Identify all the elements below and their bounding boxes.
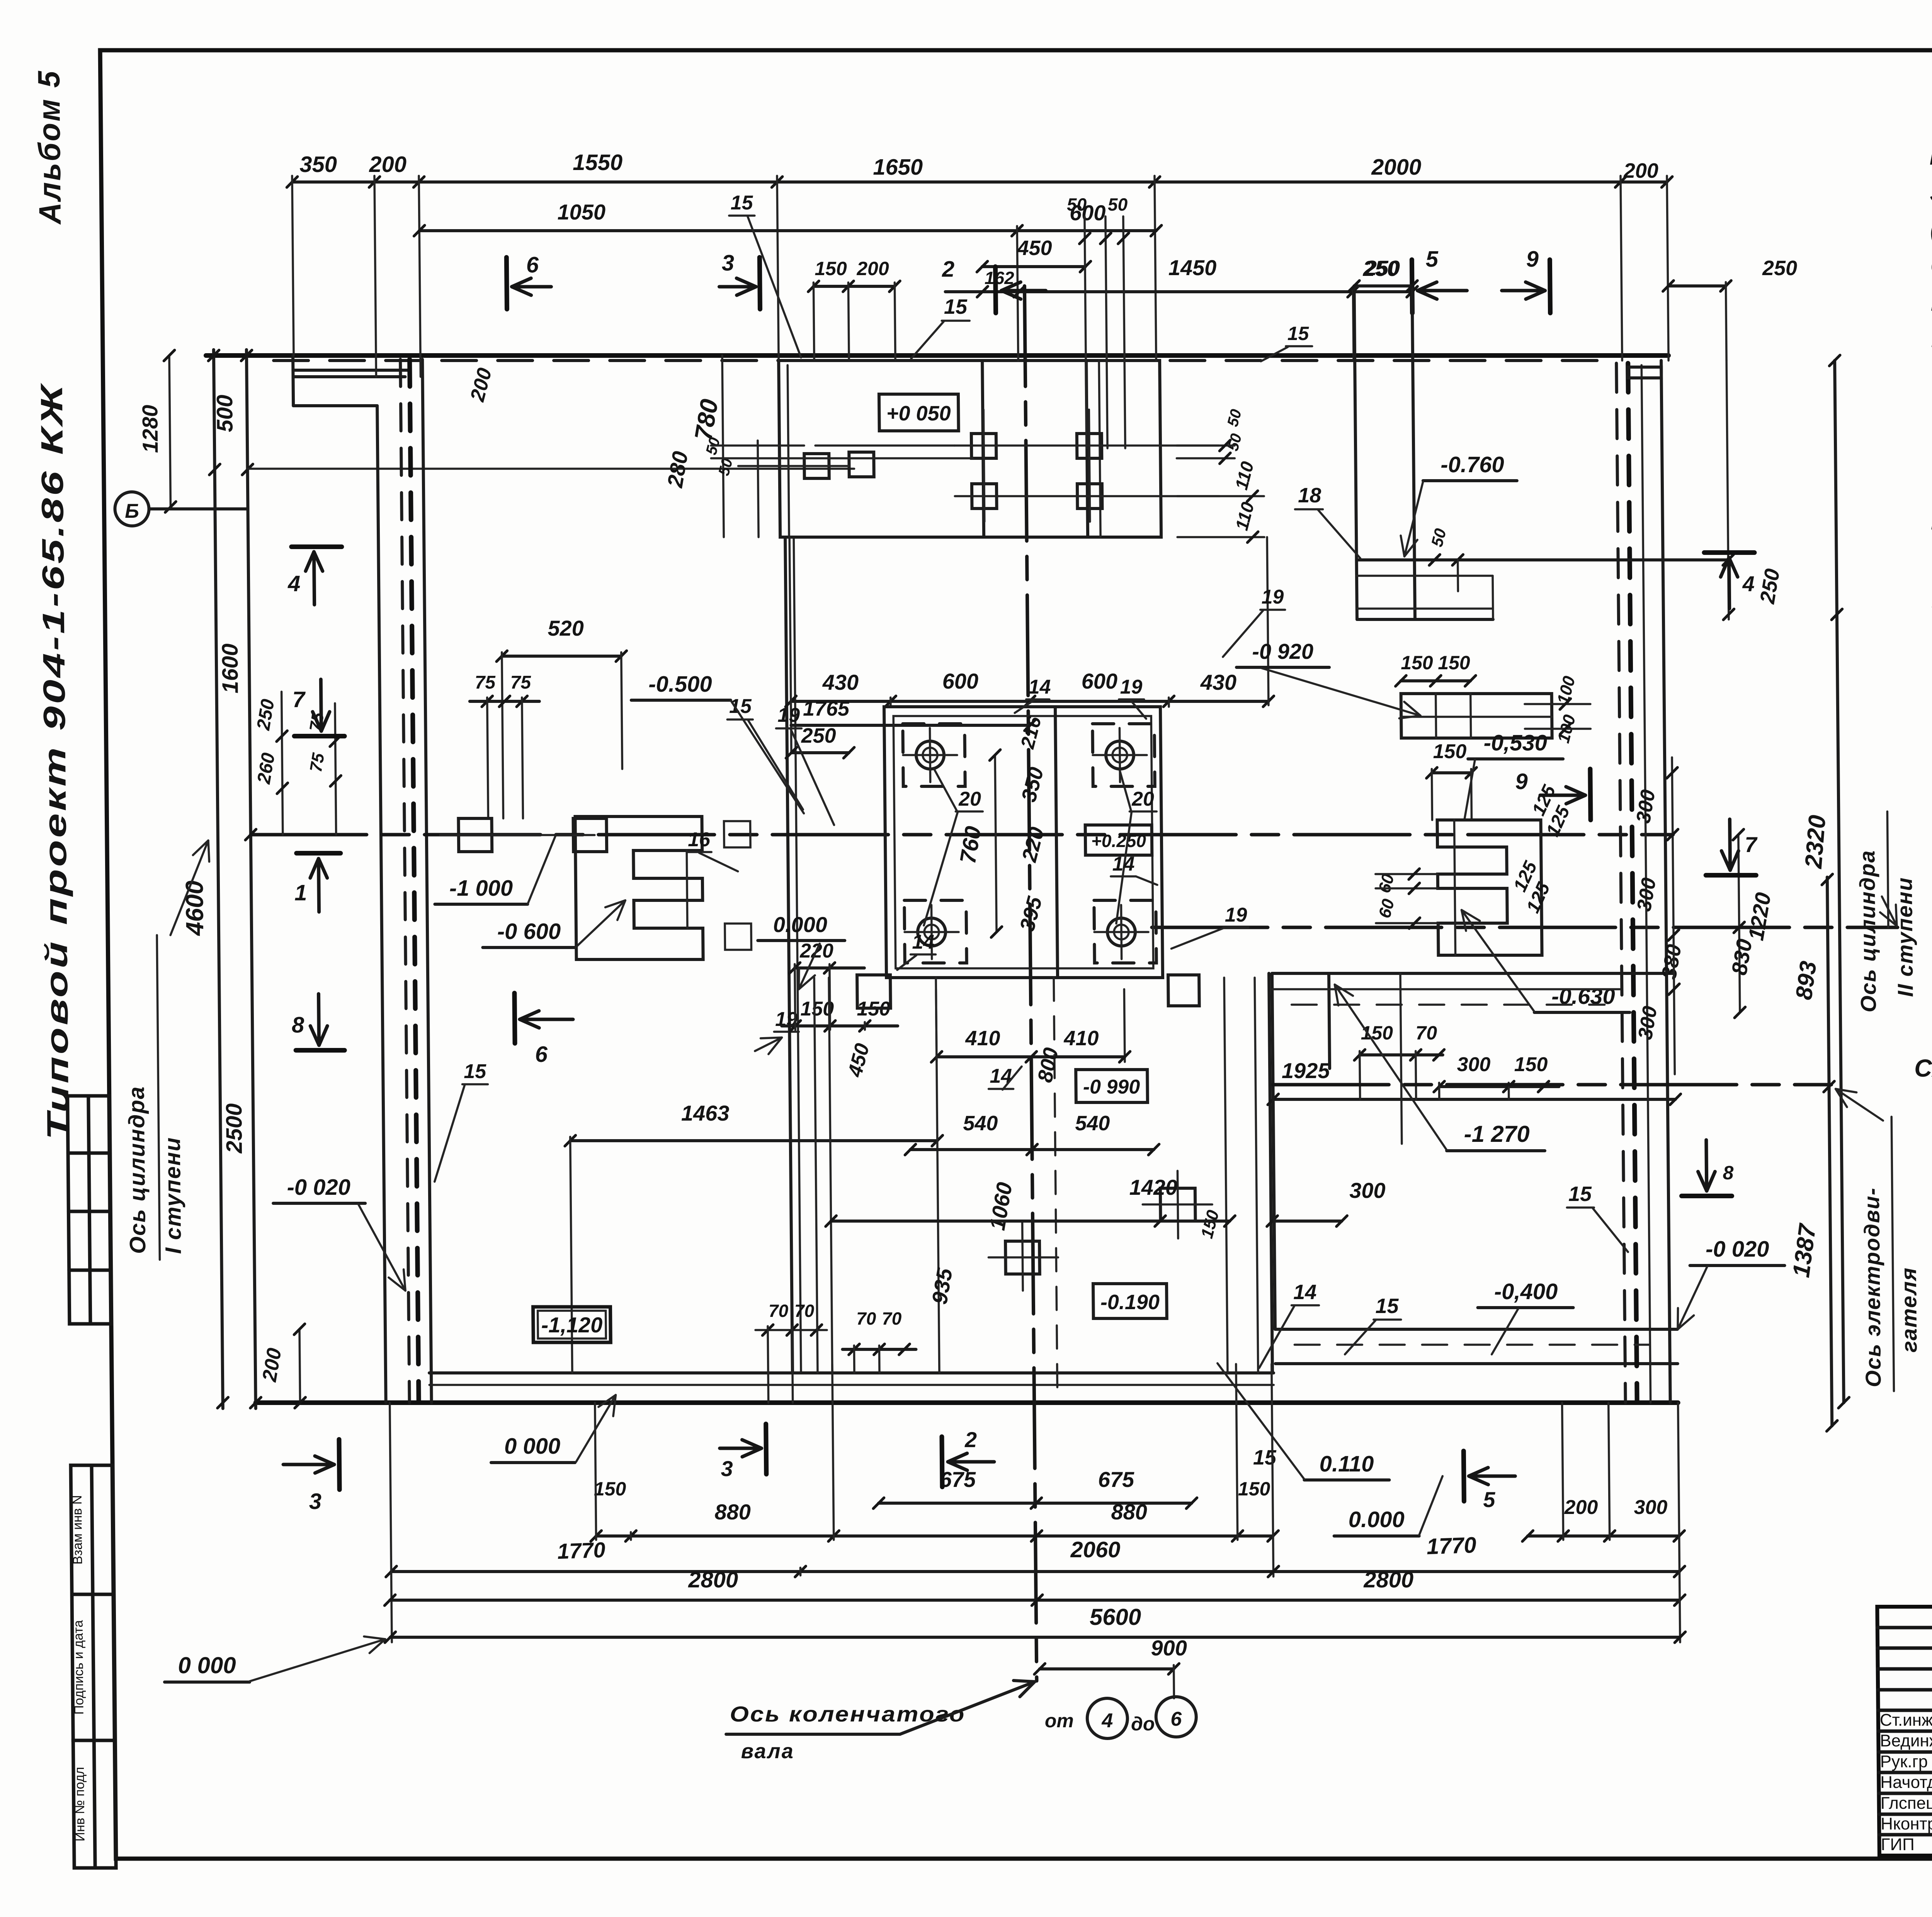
plan: left total dim line 4600 <box>214 350 223 1408</box>
svg-text:7: 7 <box>292 687 306 712</box>
svg-text:1280: 1280 <box>138 405 162 453</box>
left margin small table <box>68 1096 111 1324</box>
svg-text:ЗАДАНИЯ, ВЫДАННОГО ИНСТИТУТОМ: ЗАДАНИЯ, ВЫДАННОГО ИНСТИТУТОМ „ГИПРОСТРО… <box>1930 178 1932 207</box>
svg-text:520: 520 <box>548 616 584 640</box>
svg-text:2800: 2800 <box>1363 1567 1414 1592</box>
svg-text:19: 19 <box>1120 676 1142 698</box>
svg-text:2060: 2060 <box>1070 1537 1121 1562</box>
svg-text:I ступени: I ступени <box>160 1137 186 1254</box>
svg-text:70: 70 <box>882 1308 902 1328</box>
title block <box>1877 1607 1932 1856</box>
top dim row 1 <box>292 180 1667 184</box>
svg-text:КОМПРЕССОР 2Вм10-63/9 РАЗРАБ: КОМПРЕССОР 2Вм10-63/9 РАЗРАБОТАНЫ НА ОСН… <box>1929 142 1932 170</box>
svg-text:4: 4 <box>287 571 301 596</box>
anchor circles <box>916 741 944 769</box>
svg-text:900: 900 <box>1151 1636 1187 1660</box>
svg-text:-0,530: -0,530 <box>1483 730 1547 755</box>
plan: bottom edge <box>256 1400 1678 1405</box>
svg-text:14: 14 <box>1293 1281 1317 1304</box>
right room bottom line <box>1276 1362 1678 1365</box>
dim row 430 600 600 430 <box>791 700 1269 703</box>
svg-text:вала: вала <box>741 1740 794 1763</box>
svg-text:1650: 1650 <box>873 155 923 180</box>
svg-text:50: 50 <box>1067 194 1087 214</box>
svg-text:2: 2 <box>964 1427 977 1452</box>
elevation +0 050 <box>879 394 959 431</box>
svg-text:150: 150 <box>1361 1022 1393 1044</box>
svg-text:Инв № подл: Инв № подл <box>72 1767 88 1842</box>
svg-text:250: 250 <box>1762 257 1798 280</box>
section mark 6 top <box>507 257 507 309</box>
svg-text:3: 3 <box>721 1456 733 1481</box>
svg-text:6: 6 <box>526 252 539 277</box>
plan: left segment dim line 500/1600/2500 <box>247 350 256 1408</box>
top dim row 3 <box>946 290 1412 293</box>
top right block bottom step <box>1357 558 1728 561</box>
svg-text:14: 14 <box>990 1065 1012 1087</box>
svg-text:675: 675 <box>1098 1467 1134 1492</box>
svg-text:3: 3 <box>722 250 735 276</box>
svg-text:15: 15 <box>944 295 968 318</box>
svg-text:-0.760: -0.760 <box>1440 452 1504 477</box>
svg-text:150: 150 <box>1433 740 1466 763</box>
svg-text:ГИП: ГИП <box>1881 1835 1915 1854</box>
node B circle <box>115 492 149 526</box>
svg-text:7: 7 <box>1745 832 1758 857</box>
svg-text:0.110: 0.110 <box>1319 1451 1374 1476</box>
svg-text:8: 8 <box>1723 1162 1733 1184</box>
svg-text:15: 15 <box>1287 323 1309 344</box>
svg-text:450: 450 <box>1017 236 1052 260</box>
svg-text:20: 20 <box>958 788 981 810</box>
svg-text:-0 920: -0 920 <box>1252 639 1313 663</box>
svg-text:600: 600 <box>942 669 978 693</box>
top dim extension verticals <box>292 176 294 356</box>
section mark 6 bottom-left <box>514 993 515 1043</box>
svg-text:200: 200 <box>369 152 406 177</box>
svg-text:+0.250: +0.250 <box>1091 831 1146 851</box>
svg-text:1463: 1463 <box>681 1101 730 1125</box>
svg-text:540: 540 <box>963 1112 998 1135</box>
svg-text:(ЧЕРТЕЖИ 590973 л 1,2) И ЧЕ: (ЧЕРТЕЖИ 590973 л 1,2) И ЧЕРТЕЖЕЙ П.О ПЕ… <box>1930 214 1932 243</box>
svg-text:Ось цилиндра: Ось цилиндра <box>1855 850 1881 1012</box>
svg-text:Альбом 5: Альбом 5 <box>32 70 68 225</box>
svg-text:2: 2 <box>942 257 955 282</box>
svg-text:1765: 1765 <box>803 697 850 720</box>
svg-text:-0.190: -0.190 <box>1100 1291 1160 1314</box>
top dim row 2 <box>419 229 1156 232</box>
svg-text:СХЕМА ПРИЛОЖЕНИЯ НЕУРАВНОВ: СХЕМА ПРИЛОЖЕНИЯ НЕУРАВНОВЕШЕННЫХ СИЛ ИН… <box>1914 1054 1932 1082</box>
svg-text:20: 20 <box>1131 788 1154 810</box>
svg-text:19: 19 <box>1225 904 1247 926</box>
svg-text:14: 14 <box>1028 676 1051 698</box>
upper platform internal verticals <box>982 361 984 537</box>
svg-text:540: 540 <box>1075 1112 1110 1135</box>
section mark 3 lower-left <box>339 1439 340 1490</box>
svg-text:70: 70 <box>794 1301 815 1321</box>
platform needle lines <box>954 444 1219 447</box>
svg-text:75: 75 <box>474 672 496 693</box>
section mark 8 right <box>1682 1194 1732 1198</box>
svg-text:1050: 1050 <box>557 200 605 224</box>
svg-text:150: 150 <box>1238 1478 1270 1500</box>
svg-text:4: 4 <box>1101 1709 1113 1732</box>
svg-text:Ось электродви-: Ось электродви- <box>1859 1187 1886 1387</box>
crank axis vertical centerline <box>1024 286 1037 1681</box>
svg-text:8: 8 <box>292 1012 305 1038</box>
svg-text:2000: 2000 <box>1371 155 1422 180</box>
svg-text:1: 1 <box>294 880 307 905</box>
svg-text:1600: 1600 <box>218 643 243 693</box>
left wall verticals <box>377 406 386 1403</box>
svg-text:430: 430 <box>822 670 859 694</box>
svg-text:2500: 2500 <box>221 1103 247 1153</box>
svg-text:0 000: 0 000 <box>504 1434 561 1459</box>
svg-text:-0 020: -0 020 <box>287 1175 350 1200</box>
right wall top notch <box>1628 367 1661 378</box>
svg-text:от: от <box>1045 1710 1074 1732</box>
svg-text:600: 600 <box>1081 669 1117 693</box>
section mark 8 left <box>296 1048 345 1053</box>
svg-text:14: 14 <box>912 931 934 953</box>
svg-text:430: 430 <box>1200 670 1236 694</box>
section mark 9 top <box>1550 260 1550 313</box>
svg-text:75: 75 <box>306 752 328 774</box>
svg-text:-1 270: -1 270 <box>1464 1121 1530 1147</box>
platform anchor squares <box>971 434 997 458</box>
svg-text:0 000: 0 000 <box>178 1652 236 1678</box>
svg-text:50: 50 <box>1108 194 1128 214</box>
section mark 5 bottom <box>1464 1451 1464 1501</box>
svg-text:-0 600: -0 600 <box>497 919 561 944</box>
svg-text:675: 675 <box>939 1467 976 1492</box>
section mark 4 right <box>1704 550 1754 555</box>
svg-text:4600: 4600 <box>180 881 209 936</box>
svg-text:Ось цилиндра: Ось цилиндра <box>124 1086 151 1254</box>
left H-block <box>575 816 703 959</box>
svg-text:16: 16 <box>688 828 711 851</box>
svg-text:250: 250 <box>1365 257 1400 280</box>
svg-text:300: 300 <box>1634 1496 1667 1519</box>
section mark 4 left <box>291 544 342 549</box>
svg-text:до: до <box>1131 1713 1155 1735</box>
section mark 3 top <box>760 257 760 309</box>
svg-text:70: 70 <box>769 1301 789 1321</box>
svg-text:6: 6 <box>1170 1708 1182 1730</box>
svg-text:15: 15 <box>730 192 753 214</box>
left margin box Подпись и дата <box>72 1594 115 1740</box>
svg-text:2320: 2320 <box>1800 814 1831 870</box>
section mark 1 left <box>296 851 340 856</box>
svg-text:СОРМАШ 288Ф л.1,2 С ИСПОЛ: СОРМАШ 288Ф л.1,2 С ИСПОЛЬЗОВАНИЕМ МАТЕР… <box>1930 252 1932 280</box>
electric motor axis line <box>1273 1083 1831 1087</box>
right side rot dim column <box>1726 361 1729 619</box>
svg-text:19: 19 <box>777 704 800 726</box>
section mark 2 top <box>995 267 996 313</box>
dim 1280 vertical <box>169 356 170 507</box>
svg-text:Начотд: Начотд <box>1880 1773 1932 1792</box>
svg-text:Б: Б <box>125 500 139 522</box>
svg-text:162: 162 <box>985 268 1015 288</box>
svg-text:15: 15 <box>1375 1294 1399 1318</box>
svg-text:-0 990: -0 990 <box>1083 1076 1140 1098</box>
top right wall block 250 wide <box>1354 286 1357 619</box>
central block inner verticals <box>1055 707 1058 978</box>
svg-text:150: 150 <box>1438 652 1470 674</box>
dim 250 far right <box>1668 284 1726 287</box>
svg-text:Типовой проект 904-1-65.86: Типовой проект 904-1-65.86 КЖ <box>34 383 75 1140</box>
svg-text:300: 300 <box>1349 1178 1386 1203</box>
top dim row 450 <box>982 265 1085 268</box>
svg-text:880: 880 <box>1111 1500 1147 1524</box>
svg-text:150: 150 <box>815 258 847 279</box>
section mark 3 bottom <box>766 1424 766 1474</box>
svg-text:-0.500: -0.500 <box>648 672 712 697</box>
svg-text:200: 200 <box>1564 1496 1598 1519</box>
section mark 5 top <box>1412 260 1412 313</box>
svg-text:II ступени: II ступени <box>1892 877 1918 997</box>
svg-text:-1 000: -1 000 <box>449 876 513 901</box>
svg-text:5600: 5600 <box>1089 1604 1141 1630</box>
svg-text:500: 500 <box>212 395 238 432</box>
svg-text:75: 75 <box>510 672 531 693</box>
svg-text:18: 18 <box>1298 484 1321 507</box>
cylinder II axis horizontal centerline <box>1152 926 1898 929</box>
svg-text:4: 4 <box>1742 572 1755 596</box>
svg-text:1770: 1770 <box>1426 1533 1477 1559</box>
svg-text:19: 19 <box>1261 586 1284 608</box>
dashed pockets around circles <box>903 724 965 786</box>
svg-text:1420: 1420 <box>1129 1175 1177 1199</box>
svg-text:6: 6 <box>535 1042 548 1067</box>
needle lines left of platform <box>711 444 804 447</box>
svg-text:Глспец: Глспец <box>1881 1794 1932 1813</box>
svg-text:-0 020: -0 020 <box>1706 1237 1769 1262</box>
left anchor squares <box>458 818 492 852</box>
svg-text:1770: 1770 <box>557 1538 606 1563</box>
svg-text:1550: 1550 <box>573 150 623 175</box>
elevation +0.250 <box>1085 825 1152 855</box>
svg-text:150: 150 <box>1514 1053 1548 1076</box>
left small dims 150 200 <box>813 285 895 288</box>
section mark 7 left <box>294 734 345 738</box>
svg-text:+0 050: +0 050 <box>886 402 951 425</box>
svg-text:ПОВОЙ СЕРИИ 3.004-8 ВЫП 52: ПОВОЙ СЕРИИ 3.004-8 ВЫП 52 , РАЗРАБОТАНН… <box>1930 287 1932 316</box>
svg-text:Рук.гр: Рук.гр <box>1880 1752 1928 1771</box>
elevation -0.190 box <box>1093 1284 1167 1318</box>
dim 410 410 <box>936 989 937 1062</box>
svg-text:-0,400: -0,400 <box>1494 1279 1558 1304</box>
left margin box Инв № подл <box>73 1740 116 1868</box>
central machine block outer <box>884 707 1163 978</box>
svg-text:15: 15 <box>1568 1182 1592 1206</box>
svg-text:410: 410 <box>1063 1027 1099 1050</box>
svg-text:3: 3 <box>309 1489 321 1514</box>
left platform squares needles <box>738 465 849 467</box>
right room outline <box>1272 972 1674 975</box>
section mark 2 bottom <box>942 1437 942 1487</box>
svg-text:300: 300 <box>1457 1053 1490 1076</box>
elevation -0 990 box <box>1076 1070 1148 1102</box>
svg-text:893: 893 <box>1791 959 1821 1001</box>
section mark 9 right <box>1590 769 1590 820</box>
svg-text:70: 70 <box>1415 1022 1437 1044</box>
svg-text:1925: 1925 <box>1282 1058 1330 1083</box>
svg-text:0.000: 0.000 <box>773 912 828 937</box>
svg-text:Подпись и дата: Подпись и дата <box>71 1620 87 1715</box>
svg-text:14: 14 <box>1112 853 1134 875</box>
svg-text:250: 250 <box>801 724 836 747</box>
cylinder axis horizontal centerline <box>251 833 1673 837</box>
svg-text:70: 70 <box>856 1308 876 1328</box>
left room outline <box>785 537 793 1373</box>
right wall verticals <box>1616 363 1625 1403</box>
svg-text:200: 200 <box>856 258 889 279</box>
svg-text:Нконтр: Нконтр <box>1881 1815 1932 1834</box>
svg-text:9: 9 <box>1526 247 1539 272</box>
section mark 7 right <box>1706 873 1756 878</box>
svg-text:5: 5 <box>1483 1487 1496 1512</box>
svg-text:1450: 1450 <box>1168 255 1216 280</box>
right F-block <box>1437 820 1542 955</box>
svg-text:гателя: гателя <box>1896 1267 1922 1352</box>
dim 250 top right <box>1354 284 1412 287</box>
-0.920 block top right <box>1401 694 1552 738</box>
top dim 50 50 small <box>1085 216 1087 448</box>
elevation -1,120 box <box>533 1307 611 1342</box>
svg-text:0.000: 0.000 <box>1348 1507 1405 1532</box>
svg-text:15: 15 <box>464 1060 486 1083</box>
svg-text:5: 5 <box>1425 247 1439 272</box>
svg-text:2800: 2800 <box>688 1567 738 1592</box>
bottom middle block <box>814 978 818 1373</box>
svg-text:Ст.инж: Ст.инж <box>1880 1711 1932 1730</box>
svg-text:150: 150 <box>1401 652 1433 674</box>
svg-text:200: 200 <box>1623 159 1659 182</box>
upper platform outline <box>779 361 1161 537</box>
svg-text:9: 9 <box>1515 769 1528 794</box>
svg-text:-1,120: -1,120 <box>541 1313 602 1337</box>
needle line y1215 across left area <box>248 468 854 470</box>
svg-text:350: 350 <box>299 152 337 177</box>
left margin box Взам инв № <box>71 1465 114 1594</box>
svg-text:880: 880 <box>714 1500 751 1524</box>
bottom block squares <box>857 975 891 1008</box>
left wall top L-shape <box>293 356 293 406</box>
plan: top edge <box>206 353 1668 358</box>
svg-text:Взам инв N: Взам инв N <box>70 1495 85 1565</box>
svg-text:410: 410 <box>965 1027 1000 1050</box>
svg-text:Вединж: Вединж <box>1880 1732 1932 1750</box>
svg-text:150: 150 <box>594 1478 626 1500</box>
